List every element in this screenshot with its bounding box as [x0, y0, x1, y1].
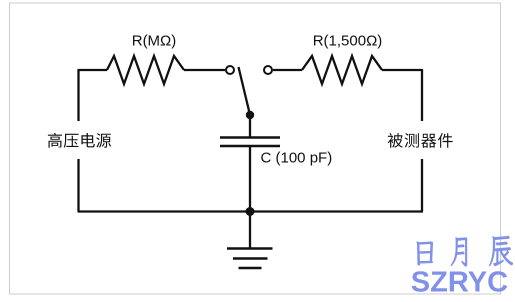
wire: left vertical upper segment: [77, 70, 79, 121]
switch S1 throw terminal (open circle, right): [264, 66, 272, 74]
watermark 日月辰: [417, 236, 513, 266]
label 被测器件 (device under test): [388, 133, 453, 148]
resistor R2 (1,500Ω) zigzag: [302, 56, 382, 84]
wire: right vertical upper segment: [421, 69, 423, 121]
wire: left vertical lower segment: [77, 159, 79, 212]
wire: top-left horizontal to R1: [78, 69, 108, 71]
ground symbol bar 1: [227, 247, 273, 250]
wire: bottom bus: [78, 210, 424, 212]
switch S1 pole terminal (open circle, left): [226, 66, 234, 74]
node: bottom bus junction dot: [246, 207, 255, 216]
wire: switch to R2: [273, 69, 302, 71]
wire: right vertical lower segment: [421, 159, 423, 212]
switch S1 blade: [239, 67, 251, 115]
ground symbol bar 2: [233, 257, 268, 260]
capacitor C top plate: [220, 136, 280, 139]
capacitor C bottom plate: [220, 145, 280, 148]
svg-text:R(1,500Ω): R(1,500Ω): [313, 32, 383, 49]
wire: R2 to right corner: [382, 69, 422, 71]
resistor R1 (MΩ) zigzag: [107, 56, 184, 84]
wire: R1 to switch pole: [184, 69, 225, 71]
svg-text:C (100 pF): C (100 pF): [261, 149, 333, 166]
ground symbol bar 3: [239, 267, 262, 270]
wire: switch dot down to capacitor C: [249, 115, 251, 137]
wire: capacitor down to bottom bus: [249, 147, 251, 212]
svg-text:SZRYC: SZRYC: [411, 266, 508, 298]
label 高压电源 (HV power supply): [48, 133, 111, 148]
switch S1 blade end junction dot: [246, 111, 254, 119]
wire: junction to ground: [249, 212, 251, 249]
svg-text:R(MΩ): R(MΩ): [132, 32, 177, 49]
